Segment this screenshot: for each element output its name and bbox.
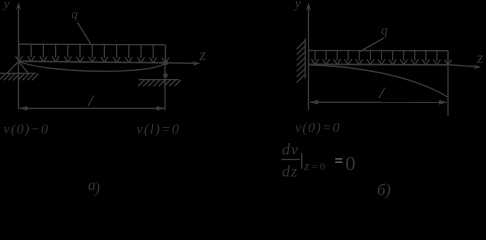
- svg-text:v(l)=0: v(l)=0: [137, 123, 181, 138]
- svg-text:= 0: = 0: [311, 162, 325, 173]
- svg-text:dv: dv: [282, 142, 299, 159]
- svg-text:q: q: [71, 6, 78, 21]
- svg-text:z: z: [303, 158, 309, 173]
- svg-text:y: y: [2, 0, 10, 11]
- svg-text:z: z: [199, 47, 207, 64]
- svg-text:q: q: [381, 23, 388, 38]
- svg-text:б): б): [377, 181, 391, 200]
- svg-text:0: 0: [345, 153, 355, 175]
- svg-text:v(0)−0: v(0)−0: [4, 123, 50, 138]
- svg-text:y: y: [293, 0, 301, 11]
- svg-text:): ): [94, 180, 100, 197]
- svg-text:z: z: [476, 50, 484, 67]
- svg-text:v(0)=0: v(0)=0: [295, 121, 341, 136]
- svg-text:dz: dz: [282, 164, 298, 181]
